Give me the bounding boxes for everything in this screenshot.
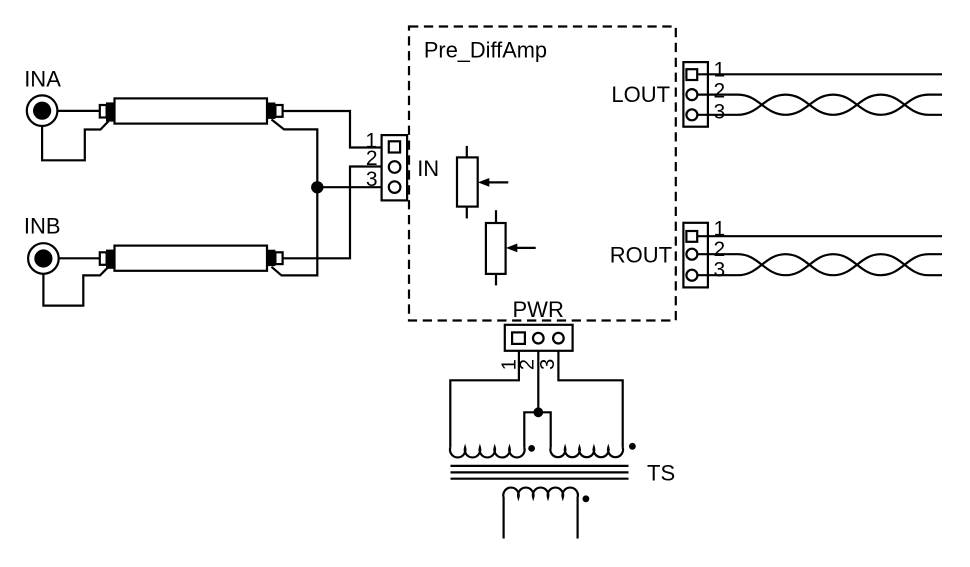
- module Pre_DiffAmp dashed box: [409, 27, 676, 321]
- wire cable B center to pin 2: [283, 167, 387, 259]
- svg-text:INA: INA: [24, 67, 61, 92]
- phase dot secondary left: [528, 445, 535, 452]
- junction node center tap: [533, 407, 543, 417]
- svg-text:LOUT: LOUT: [611, 82, 670, 107]
- potentiometer RP2: [486, 210, 536, 285]
- svg-text:3: 3: [714, 100, 726, 123]
- connector INA (RCA jack): [27, 95, 58, 126]
- transformer TS secondary winding right: [550, 448, 623, 458]
- junction node (shields): [311, 181, 323, 193]
- connector PWR (3-pin header): [505, 325, 573, 351]
- shield wire cable B right to junction: [272, 187, 318, 275]
- svg-text:3: 3: [537, 359, 559, 370]
- svg-text:3: 3: [366, 168, 378, 191]
- connector ROUT (3-pin header): [683, 223, 708, 288]
- svg-text:2: 2: [366, 147, 378, 170]
- wire INA center to cable A: [57, 110, 100, 112]
- cable B (shielded coax): [100, 246, 283, 271]
- svg-text:2: 2: [714, 79, 726, 102]
- shield wire cable A right to junction: [272, 120, 318, 188]
- shield wire INB left: [43, 267, 108, 305]
- svg-text:ROUT: ROUT: [610, 243, 672, 268]
- connector INB (RCA jack): [28, 243, 59, 274]
- transformer TS secondary winding left: [450, 448, 525, 458]
- svg-text:Pre_DiffAmp: Pre_DiffAmp: [424, 38, 547, 63]
- connector IN (3-pin header): [382, 135, 408, 200]
- svg-text:TS: TS: [647, 460, 675, 485]
- wire LOUT twisted pair strand A: [698, 95, 942, 115]
- wire PWR pin3 to transformer right: [558, 351, 622, 448]
- wire junction to pin 3: [317, 186, 387, 188]
- wire LOUT twisted pair strand B: [698, 95, 942, 115]
- connector LOUT (3-pin header): [683, 62, 708, 127]
- transformer TS primary winding: [503, 488, 578, 539]
- wire LOUT pin1: [698, 73, 942, 75]
- svg-text:PWR: PWR: [513, 297, 564, 322]
- wire PWR pin2 to center tap: [537, 351, 539, 413]
- phase dot primary: [583, 495, 590, 502]
- wire PWR pin1 to transformer left: [450, 351, 519, 448]
- phase dot secondary right: [629, 443, 636, 450]
- svg-text:3: 3: [714, 258, 726, 281]
- wire cable A center to pin 1: [283, 111, 388, 148]
- svg-text:1: 1: [714, 58, 726, 81]
- transformer TS core: [451, 466, 629, 479]
- wire ROUT twisted pair strand A: [698, 254, 942, 275]
- wire ROUT pin1: [698, 235, 942, 237]
- svg-text:IN: IN: [417, 156, 439, 181]
- wire INB center to cable B: [58, 257, 100, 259]
- svg-text:INB: INB: [24, 213, 61, 238]
- shield wire INA left: [42, 121, 108, 160]
- wire center tap legs: [524, 412, 550, 447]
- potentiometer RP1: [457, 146, 508, 219]
- cable A (shielded coax): [100, 98, 283, 123]
- wire ROUT twisted pair strand B: [698, 254, 942, 275]
